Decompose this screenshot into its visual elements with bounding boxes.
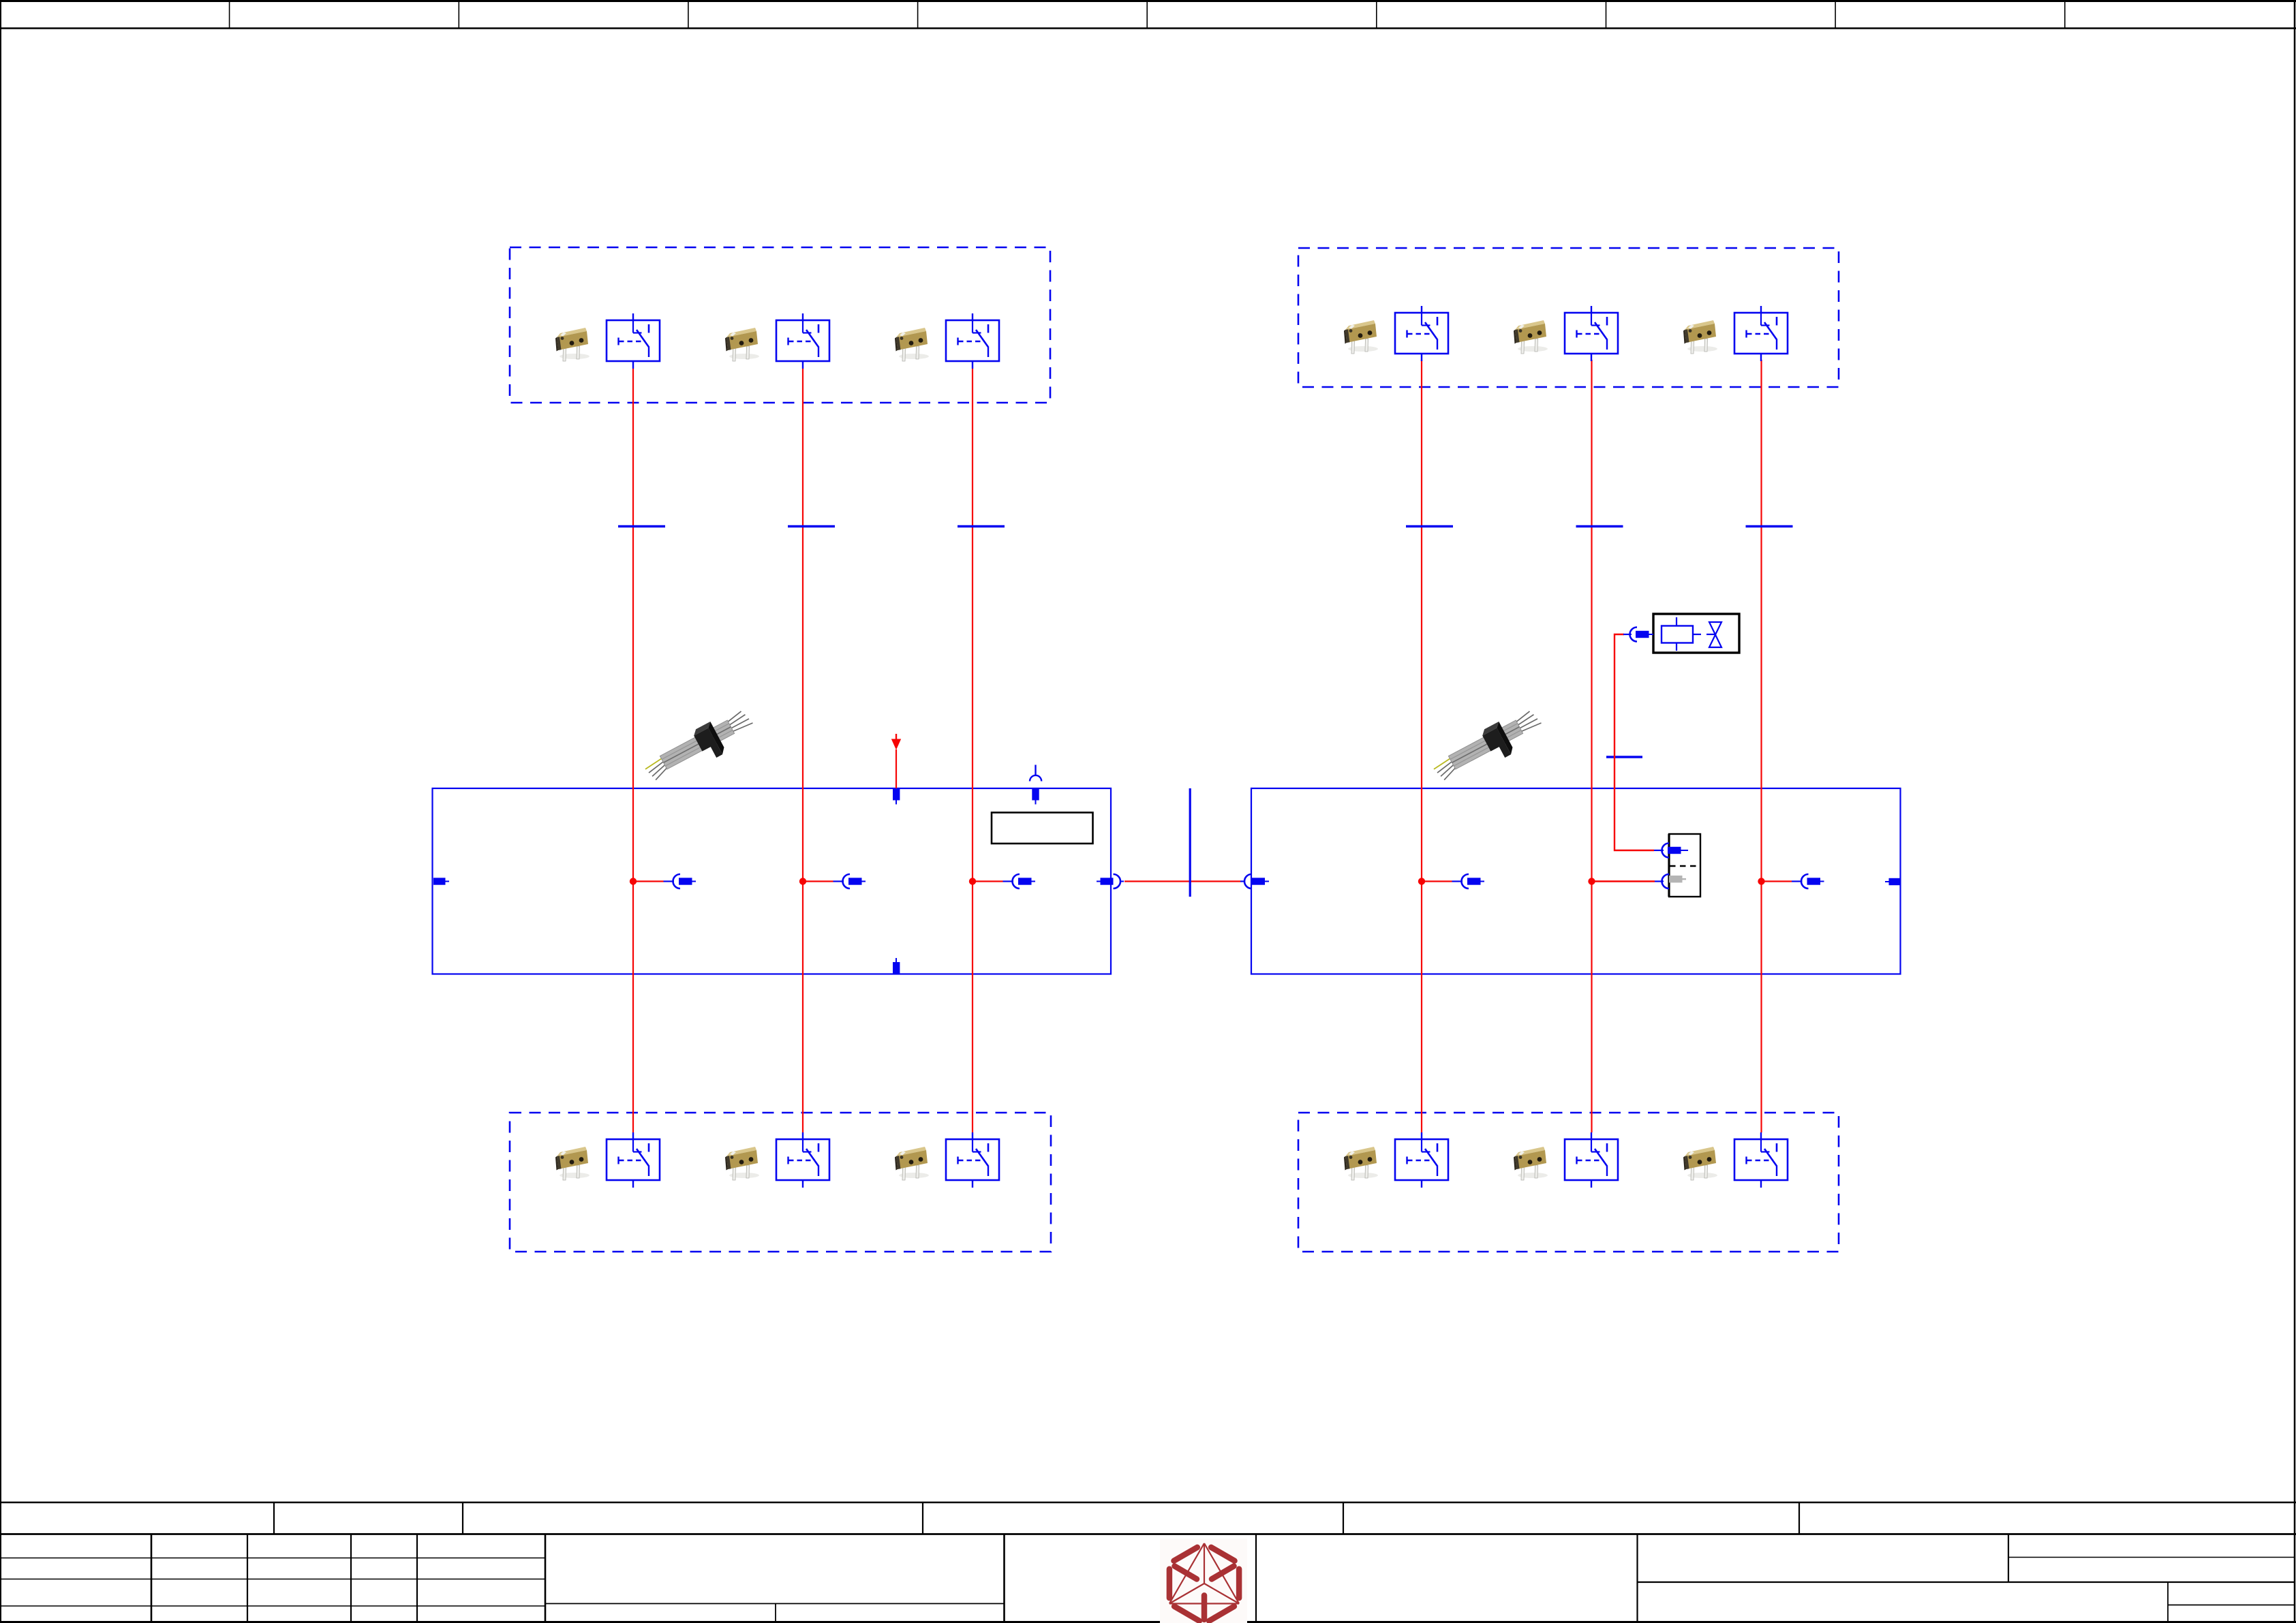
- solenoid valve Y1: [1653, 614, 1739, 653]
- wire W3 red vertical left: [972, 369, 973, 1132]
- switch symbol S2: [776, 313, 829, 369]
- switch symbol S8: [776, 1132, 829, 1188]
- microswitch S8 photo: [725, 1147, 759, 1180]
- wire W4a red vertical into left box: [896, 749, 897, 788]
- connector P2: [803, 874, 866, 888]
- microswitch S7 photo: [555, 1147, 590, 1180]
- microswitch S10 photo: [1344, 1147, 1378, 1180]
- microswitch S5 photo: [1514, 320, 1548, 354]
- node A2: [799, 878, 806, 884]
- enclosure dashed box top-left: [510, 247, 1050, 403]
- switch symbol S4: [1395, 306, 1448, 361]
- wire W2 red vertical left: [802, 369, 803, 1132]
- wire W1 red vertical left: [632, 369, 634, 1132]
- microswitch S2 photo: [725, 328, 759, 361]
- switch symbol S12: [1734, 1132, 1788, 1188]
- inline terminal T7 valve branch: [1606, 756, 1642, 758]
- wire valve branch: [1614, 634, 1654, 850]
- pin X2 right edge: [1885, 878, 1901, 885]
- wire mid interconnection left-to-right: [1124, 880, 1240, 882]
- ribbon cable J1: [640, 705, 759, 790]
- pin X1 top edge W4a: [893, 788, 900, 805]
- wire W6 red vertical right: [1760, 360, 1762, 1132]
- connector P3: [973, 874, 1035, 888]
- node B3: [1758, 878, 1764, 884]
- microswitch S11 photo: [1514, 1147, 1548, 1180]
- microswitch S3 photo: [895, 328, 929, 361]
- inline terminal T1: [618, 526, 665, 527]
- connector P5: [1762, 874, 1824, 888]
- enclosure dashed box bottom-left: [510, 1113, 1051, 1252]
- node B1: [1418, 878, 1425, 884]
- inline terminal T2: [788, 526, 835, 527]
- connector box X2: [1251, 788, 1901, 974]
- microswitch S9 photo: [895, 1147, 929, 1180]
- connector P4: [1422, 874, 1484, 888]
- connector box X1: [433, 788, 1112, 974]
- wire W4 red vertical right: [1421, 360, 1422, 1132]
- wire relay to node B2: [1592, 880, 1655, 882]
- microswitch S6 photo: [1683, 320, 1717, 354]
- enclosure dashed box top-right: [1298, 248, 1839, 387]
- microswitch S1 photo: [555, 328, 590, 361]
- switch symbol S9: [946, 1132, 999, 1188]
- pin X1 left edge: [433, 878, 449, 884]
- switch symbol S1: [607, 313, 660, 369]
- connector valve Y1: [1623, 628, 1653, 642]
- node A3: [969, 878, 976, 884]
- supply arrow on W4a: [891, 734, 901, 750]
- inline terminal T6: [1746, 526, 1793, 527]
- logo: [1160, 1539, 1247, 1623]
- label box: [992, 813, 1093, 844]
- microswitch S4 photo: [1344, 320, 1378, 354]
- switch symbol S7: [607, 1132, 660, 1188]
- pin X1 bottom edge: [893, 958, 900, 974]
- inline terminal T3: [958, 526, 1005, 527]
- switch symbol S5: [1565, 306, 1618, 361]
- microswitch S12 photo: [1683, 1147, 1717, 1180]
- node A1: [630, 878, 637, 884]
- connector relay contact pin grey: [1655, 874, 1686, 888]
- antenna pin X1 top edge: [1030, 765, 1041, 805]
- switch symbol S3: [946, 313, 999, 369]
- connector X2 left edge: [1244, 874, 1269, 888]
- wire W5 red vertical right: [1591, 360, 1592, 1132]
- relay K1: [1669, 834, 1700, 897]
- switch symbol S11: [1565, 1132, 1618, 1188]
- inline terminal T4: [1406, 526, 1453, 527]
- inline terminal T5: [1576, 526, 1623, 527]
- connector X1 right edge: [1097, 874, 1124, 888]
- node B2: [1588, 878, 1595, 884]
- switch symbol S10: [1395, 1132, 1448, 1188]
- connector P1: [633, 874, 696, 888]
- enclosure dashed box bottom-right: [1298, 1113, 1839, 1252]
- ribbon cable J2: [1428, 705, 1548, 790]
- connector relay coil pin: [1654, 844, 1688, 858]
- switch symbol S6: [1734, 306, 1788, 361]
- bus bar: [1189, 788, 1191, 897]
